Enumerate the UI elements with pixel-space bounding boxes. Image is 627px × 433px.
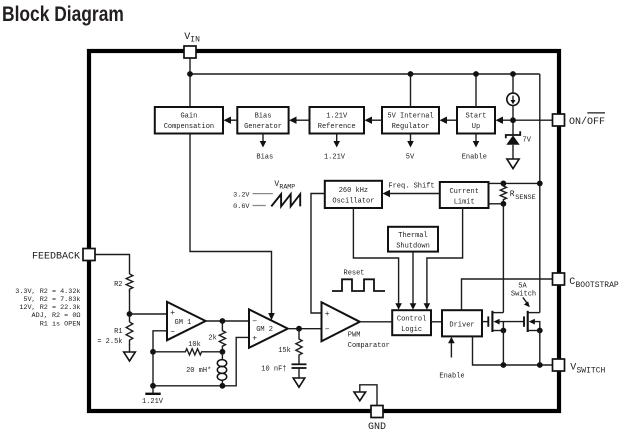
wire GM2 output to PWM minus [288, 328, 322, 330]
inductor 20mH [217, 360, 226, 381]
waveform sawtooth ramp [271, 194, 300, 206]
label CBOOTSTRAP [569, 277, 619, 290]
wire arrow Start Up to Regulator [440, 117, 458, 124]
svg-text:= 2.5k: = 2.5k [97, 338, 122, 346]
svg-text:Compensation: Compensation [164, 123, 214, 131]
arrow 5A switch pointer [523, 297, 530, 307]
svg-text:PWM: PWM [348, 332, 361, 340]
wire current limit to control logic [424, 208, 463, 310]
block Control Logic [392, 310, 431, 335]
ground arrow below R1 [124, 352, 136, 361]
wire feedback pin to divider [95, 255, 130, 275]
capacitor 10nF [292, 364, 307, 378]
level line 3.2V [253, 193, 273, 195]
svg-text:+: + [170, 309, 175, 318]
svg-text:Bias: Bias [255, 113, 272, 121]
node divider junction [127, 311, 133, 317]
svg-text:ADJ, R2 = 0Ω: ADJ, R2 = 0Ω [32, 312, 81, 320]
node Q2 at VSWITCH rail [537, 362, 543, 368]
svg-text:Up: Up [472, 123, 480, 131]
svg-text:Control: Control [397, 316, 426, 324]
node GM2 output [296, 326, 302, 332]
node bus at regulator [408, 71, 414, 77]
wire thermal shutdown to control logic [410, 252, 417, 310]
svg-text:ON/OFF: ON/OFF [569, 116, 605, 128]
block Thermal Shutdown [388, 227, 438, 252]
block Gain Compensation [155, 107, 223, 134]
transistor Q2 gate bar [523, 316, 525, 326]
node Q1 at VSWITCH rail [501, 362, 507, 368]
pin VSWITCH [553, 359, 565, 371]
block 5V Internal Regulator [382, 107, 439, 134]
wire inductor to rail [221, 381, 223, 386]
label VRAMP [274, 180, 295, 190]
waveform reset pulses [332, 279, 385, 291]
node sense top left [501, 181, 507, 187]
svg-text:Enable: Enable [462, 154, 487, 162]
block Start Up [457, 107, 495, 134]
arrow Bias output [260, 134, 267, 148]
svg-text:RAMP: RAMP [279, 183, 295, 190]
svg-text:Bias: Bias [256, 154, 273, 162]
svg-text:Comparator: Comparator [348, 342, 390, 350]
internal ground notch [354, 385, 377, 406]
resistor RSENSE [500, 183, 506, 201]
transistor Q2 drain stub [528, 312, 540, 314]
svg-text:0.6V: 0.6V [233, 203, 250, 211]
svg-text:−: − [325, 326, 330, 335]
node ON/OFF zener junction [510, 117, 516, 123]
svg-text:Block Diagram: Block Diagram [2, 2, 124, 26]
wire R1 to ground [129, 344, 131, 352]
arrow Enable output [473, 134, 480, 148]
op-amp GM1 [167, 302, 206, 340]
arrowhead into GM2 [268, 313, 275, 320]
label ON/OFF [569, 113, 605, 128]
svg-text:Regulator: Regulator [392, 123, 430, 131]
transistor Q1 gate bar [487, 316, 489, 326]
ground arrow below capacitor [293, 378, 305, 387]
node sense bottom [501, 201, 507, 207]
wire Current Limit sense bottom [489, 203, 504, 205]
svg-text:R: R [510, 190, 515, 199]
svg-text:+: + [252, 335, 257, 344]
wire bus down to Start Up [475, 74, 477, 107]
wire bus down to 5V Internal Regulator [410, 74, 412, 107]
svg-text:V: V [570, 363, 576, 374]
svg-text:Thermal: Thermal [398, 232, 427, 240]
node bus at start up [473, 71, 479, 77]
wire current source to zener node [512, 106, 514, 136]
wire bus down to current source [512, 74, 514, 93]
svg-text:BOOTSTRAP: BOOTSTRAP [576, 281, 619, 290]
svg-text:Gain: Gain [180, 113, 197, 121]
node sense top right [537, 181, 543, 187]
svg-text:Switch: Switch [511, 290, 536, 298]
wire arrow Current Limit to Oscillator [383, 190, 440, 197]
svg-text:12V, R2 = 22.3k: 12V, R2 = 22.3k [19, 304, 80, 312]
svg-text:10k: 10k [188, 341, 201, 349]
block Current Limit [440, 182, 489, 208]
wire VIN pin down to Gain Compensation [189, 58, 191, 107]
svg-text:Reset: Reset [344, 270, 365, 278]
transistor Q2 source stub [528, 330, 540, 332]
svg-text:5V: 5V [406, 154, 415, 162]
wire R2 to divider node [129, 291, 131, 323]
wire arrow Regulator to Reference [365, 117, 383, 124]
wire control logic to driver [431, 321, 442, 323]
transistor Q1 body to source tie [502, 322, 504, 331]
svg-text:Freq. Shift: Freq. Shift [388, 183, 434, 191]
wire 2k to inductor [221, 352, 223, 360]
reference 1.21V stub [145, 386, 160, 394]
pin VIN [184, 46, 196, 58]
wire oscillator output to PWM comparator plus input [311, 194, 325, 314]
svg-text:1.21V: 1.21V [324, 154, 346, 162]
transistor Q1 drain stub [492, 312, 503, 314]
svg-text:GM 1: GM 1 [175, 319, 192, 327]
arrow 1.21V output [333, 134, 340, 148]
node VIN bus junction [187, 71, 193, 77]
node rail inductor [220, 383, 226, 389]
IC boundary box [89, 51, 559, 411]
node Q2 source [537, 328, 543, 334]
wire arrow Bias Generator to Gain Compensation [224, 117, 238, 124]
wire zener anode down [512, 145, 514, 159]
wire GM1 output to GM2 minus [206, 320, 249, 322]
svg-text:5V, R2 = 7.83k: 5V, R2 = 7.83k [23, 296, 80, 304]
transistor Q1 source stub [492, 330, 503, 332]
svg-text:1.21V: 1.21V [142, 398, 164, 406]
node rail left [150, 383, 156, 389]
svg-text:Generator: Generator [244, 123, 282, 131]
pin FEEDBACK [83, 249, 95, 261]
block Bias Generator [237, 107, 288, 134]
svg-text:+: + [325, 310, 330, 319]
wire GM1 minus input [153, 331, 167, 386]
svg-text:R2: R2 [114, 281, 122, 289]
resistor 10k [153, 349, 222, 355]
svg-text:1.21V: 1.21V [326, 113, 348, 121]
resistor R2 [126, 274, 133, 292]
transistor Q2 channel bar [527, 311, 529, 332]
wire VIN supply bus [190, 73, 540, 75]
wire switch drain from bus [539, 74, 541, 313]
svg-text:Driver: Driver [449, 321, 474, 329]
resistor R1 [126, 322, 133, 345]
svg-text:IN: IN [190, 35, 200, 44]
wire compensation bottom rail [153, 337, 249, 385]
resistor 2k [219, 321, 225, 352]
text feedback resistor table [15, 288, 80, 328]
block Driver [442, 310, 482, 336]
op-amp GM2 [249, 309, 288, 347]
wire RSENSE bottom down to switch drain [502, 204, 504, 313]
svg-text:3.2V: 3.2V [233, 191, 250, 199]
svg-text:260 kHz: 260 kHz [339, 187, 368, 195]
op-amp PWM comparator [322, 302, 360, 341]
label VSWITCH [570, 363, 605, 376]
svg-text:Oscillator: Oscillator [332, 197, 374, 205]
svg-text:Enable: Enable [439, 373, 464, 381]
node GM1 output [220, 318, 226, 324]
wire driver bottom to VSWITCH [473, 336, 553, 365]
transistor Q1 body arrow [493, 319, 524, 325]
svg-text:20 mH*: 20 mH* [186, 367, 211, 375]
node Q1 source [501, 328, 507, 334]
svg-text:GM 2: GM 2 [256, 326, 273, 334]
svg-text:10 nF†: 10 nF† [261, 366, 286, 374]
arrow enable into driver [448, 337, 455, 358]
svg-text:R1: R1 [114, 328, 122, 336]
wire Gain Compensation to GM2 top [190, 134, 272, 314]
wire ON/OFF pin to Start Up [496, 117, 553, 124]
arrow 5V output [407, 134, 414, 148]
pin GND [371, 406, 383, 418]
wire PWM output to control logic [360, 321, 392, 323]
svg-text:FEEDBACK: FEEDBACK [32, 251, 80, 262]
zener diode D1 7V [506, 131, 520, 145]
transistor Q2 body arrow [529, 319, 540, 331]
svg-text:Logic: Logic [401, 326, 422, 334]
svg-text:R1 is OPEN: R1 is OPEN [40, 320, 81, 328]
wire Q1 source to VSWITCH rail [502, 331, 504, 366]
pin CBOOTSTRAP [553, 273, 565, 285]
current source I1 [507, 93, 519, 105]
svg-text:3.3V, R2 = 4.32k: 3.3V, R2 = 4.32k [15, 288, 80, 296]
ground arrow below zener [507, 159, 519, 169]
svg-text:−: − [170, 328, 175, 337]
svg-text:GND: GND [368, 422, 386, 433]
wire Current Limit sense top [489, 182, 540, 184]
svg-text:5V Internal: 5V Internal [387, 113, 433, 121]
wire divider node to GM1 plus [130, 313, 168, 315]
node 2k bottom [220, 349, 226, 355]
svg-text:Limit: Limit [454, 198, 475, 206]
svg-text:SWITCH: SWITCH [577, 367, 606, 376]
block 1.21V Reference [310, 107, 365, 134]
wire Q2 source to VSWITCH rail [539, 331, 541, 366]
transistor Q1 channel bar [491, 311, 493, 332]
svg-text:C: C [569, 277, 575, 288]
level line 0.6V [253, 205, 266, 207]
svg-text:Start: Start [465, 113, 486, 121]
svg-text:Shutdown: Shutdown [396, 243, 430, 251]
resistor 15k [296, 329, 302, 365]
label PWM Comparator [348, 332, 390, 351]
svg-text:15k: 15k [278, 347, 291, 355]
label 5A Switch [511, 283, 536, 299]
label RSENSE [510, 190, 536, 202]
pin ON/OFF [553, 114, 565, 126]
title Block Diagram [2, 2, 124, 26]
wire driver top to bootstrap pin [462, 279, 553, 310]
transistor Q1 driver FET gate wire [482, 321, 488, 323]
svg-text:7V: 7V [523, 136, 532, 144]
svg-text:Reference: Reference [318, 123, 356, 131]
node minus feedback junction [150, 349, 156, 355]
wire arrow Reference to Bias Generator [289, 117, 310, 124]
svg-text:SENSE: SENSE [515, 194, 535, 202]
label VIN [184, 32, 200, 45]
wire oscillator to control logic [353, 208, 402, 310]
block 260 kHz Oscillator [325, 181, 382, 208]
node bus at current source [510, 71, 516, 77]
svg-text:Current: Current [449, 188, 478, 196]
svg-text:2k: 2k [208, 334, 216, 342]
